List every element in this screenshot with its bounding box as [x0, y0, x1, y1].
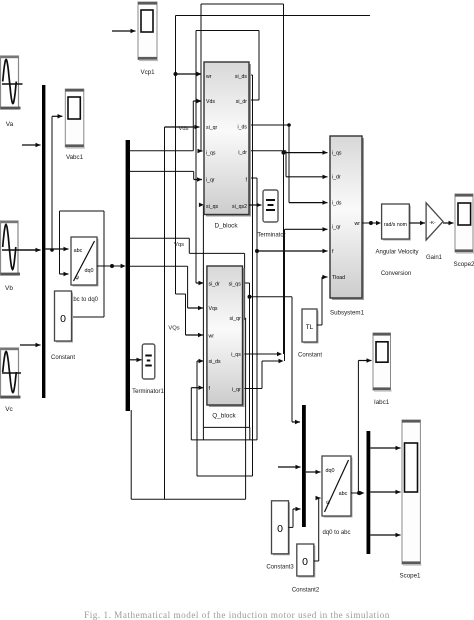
svg-text:ψ: ψ: [326, 500, 330, 506]
terminator block Terminator: [263, 190, 278, 222]
label Angular Velocity Conversion: [375, 250, 418, 278]
block dq0 to abc: [322, 456, 353, 518]
label Terminator: [257, 233, 285, 239]
label Subsystem1: [330, 310, 365, 317]
wire i_qs feedback loop top: [201, 3, 284, 5]
svg-text:Scope2: Scope2: [454, 261, 474, 268]
figure caption: [84, 610, 390, 620]
svg-text:si_qr: si_qr: [206, 125, 218, 131]
svg-text:Constant: Constant: [298, 353, 322, 359]
sine wave source Vc: [1, 348, 22, 398]
svg-text:dq0: dq0: [85, 268, 94, 274]
svg-text:si_ds: si_ds: [209, 359, 222, 365]
svg-text:Vb: Vb: [5, 285, 13, 292]
svg-text:Terminator1: Terminator1: [132, 389, 164, 395]
svg-text:si_dr: si_dr: [236, 99, 248, 105]
svg-text:Scope1: Scope1: [400, 573, 422, 580]
svg-text:si_qr: si_qr: [230, 316, 242, 322]
wire conversion to gain: [409, 221, 425, 225]
label Scope1: [400, 573, 422, 580]
wire dq0abc output: [351, 491, 365, 495]
svg-text:Vcp1: Vcp1: [140, 69, 155, 76]
svg-text:0: 0: [60, 313, 66, 325]
scope Vcp1: [138, 2, 158, 61]
wire Vqs from Demux1: [130, 266, 203, 310]
wire stubs below Q_block label: [203, 427, 249, 440]
label Vcp1: [140, 69, 155, 76]
svg-text:abc: abc: [74, 248, 83, 254]
label abc to dq0: [70, 297, 99, 303]
svg-text:Constant2: Constant2: [292, 588, 320, 594]
svg-text:Tload: Tload: [332, 275, 345, 281]
wire Constant2 to dq0abc: [314, 496, 321, 561]
wire si_dr feedback right: [249, 31, 259, 101]
gain block Gain1: [426, 203, 443, 240]
svg-text:si_qs: si_qs: [229, 281, 242, 287]
svg-text:i_qr: i_qr: [332, 225, 341, 231]
svg-text:abc: abc: [339, 491, 348, 497]
svg-text:Vqs: Vqs: [209, 306, 218, 312]
wire wr feedback vertical: [174, 16, 178, 295]
wire Vds from Demux1: [130, 99, 202, 151]
label Vds: [179, 126, 189, 132]
label Vqs wire: [174, 242, 184, 248]
svg-text:Fig. 1. Mathematical model of: Fig. 1. Mathematical model of the induct…: [84, 610, 390, 620]
svg-text:i_ds: i_ds: [332, 200, 342, 206]
subsystem Q_block: [207, 266, 245, 407]
wire si_dr feedback top: [196, 30, 259, 32]
svg-text:si_qs: si_qs: [206, 204, 219, 210]
label Vabc1: [66, 154, 84, 161]
svg-text:i_dr: i_dr: [332, 175, 341, 181]
wire gain to Scope2: [443, 221, 454, 225]
wire Q i_qs output: [243, 352, 283, 356]
svg-text:i_qs: i_qs: [231, 352, 241, 358]
label Iabc1: [374, 399, 390, 406]
wire bus to abc input: [46, 247, 69, 251]
label Constant: [51, 355, 75, 361]
wire Demux2 to Scope1 a: [370, 446, 400, 450]
svg-text:i_qs: i_qs: [206, 150, 216, 156]
wire Vc to bus Mux1: [20, 343, 41, 347]
svg-text:wr: wr: [355, 221, 361, 227]
wire Mux2 to dq0abc: [306, 470, 321, 474]
wire constant loop: [60, 211, 105, 317]
mux bar Demux1: [126, 140, 130, 411]
wire si_qs branch to dq0abc bus: [250, 297, 301, 425]
constant block Constant2: [297, 544, 316, 578]
svg-text:Subsystem1: Subsystem1: [330, 310, 365, 317]
wire wr to Q_block: [176, 294, 204, 337]
svg-text:dq0: dq0: [326, 468, 335, 474]
label Constant3: [266, 565, 294, 571]
svg-text:0: 0: [302, 556, 308, 568]
constant block Constant3: [272, 501, 291, 556]
svg-text:-K-: -K-: [429, 220, 436, 226]
svg-text:Angular Velocity: Angular Velocity: [375, 250, 418, 256]
wire TL to Tload: [317, 275, 328, 325]
wire Vb to bus Mux1: [2, 248, 41, 252]
label Constant2: [292, 588, 320, 594]
label Terminator1: [132, 389, 164, 395]
wire i_qs to Subsystem1: [284, 150, 328, 155]
svg-text:i_qs: i_qs: [332, 150, 342, 156]
sine wave source Vb: [1, 221, 21, 275]
svg-text:Q_block: Q_block: [212, 413, 236, 420]
wire si_ds crossfeed: [197, 75, 253, 476]
label Scope2: [454, 261, 474, 268]
label dq0 to abc: [322, 530, 350, 536]
wire Demux1 mid branch: [130, 238, 245, 320]
wire si_qs crossfeed: [199, 203, 252, 428]
wire i_qs feedback right: [282, 4, 286, 354]
terminator block Terminator1: [142, 344, 155, 379]
svg-text:Vabc1: Vabc1: [66, 154, 84, 161]
sine wave source Va: [1, 56, 23, 109]
wire si_dr feedback left: [196, 31, 204, 286]
constant block Constant: [55, 291, 74, 343]
svg-text:Gain1: Gain1: [426, 255, 443, 261]
mux bar Mux1: [42, 85, 45, 398]
svg-text:Va: Va: [6, 121, 14, 128]
svg-text:TL: TL: [306, 324, 314, 331]
wire wr feedback top: [176, 15, 371, 17]
svg-text:Vc: Vc: [5, 406, 13, 413]
scope Scope2: [455, 194, 474, 254]
svg-text:0: 0: [277, 523, 283, 535]
svg-text:si_ds: si_ds: [235, 74, 248, 80]
wire Demux1 to D i_qr: [130, 171, 202, 181]
label Constant TL: [298, 353, 322, 359]
svg-text:rad/s nom: rad/s nom: [384, 222, 407, 228]
wire Constant3 to Mux2: [288, 507, 300, 528]
wire D si_qs2 to Terminator: [249, 203, 262, 207]
wire i_ds to Subsystem1: [249, 123, 328, 205]
wire Demux2 to Scope1 b: [370, 490, 400, 494]
label Q_block: [212, 413, 236, 420]
mux bar Mux2: [302, 405, 306, 527]
label Va: [6, 121, 14, 128]
svg-text:Constant: Constant: [51, 355, 75, 361]
svg-text:Terminator: Terminator: [257, 233, 285, 239]
label VQs: [168, 326, 179, 332]
svg-text:Iabc1: Iabc1: [374, 399, 390, 406]
wire wr output: [362, 221, 381, 225]
wire i_qr to Subsystem1: [243, 227, 328, 388]
svg-text:i_ds: i_ds: [237, 124, 247, 130]
svg-text:dq0 to abc: dq0 to abc: [322, 530, 350, 536]
scope Scope1: [402, 420, 421, 566]
label Vc: [5, 406, 13, 413]
svg-text:Constant3: Constant3: [266, 565, 294, 571]
wire f to Subsystem1: [257, 249, 328, 253]
svg-text:Conversion: Conversion: [381, 271, 411, 277]
mux bar Demux2: [367, 431, 371, 554]
svg-text:si_dr: si_dr: [209, 281, 221, 287]
svg-text:i_qr: i_qr: [206, 177, 215, 183]
wire dq0 output to Demux1: [97, 264, 126, 268]
wire into Mux2 middle: [278, 465, 301, 469]
wire Va to bus Mux1: [22, 143, 41, 147]
wire Demux2 to Scope1 c: [370, 533, 400, 537]
svg-text:Vds: Vds: [206, 99, 215, 105]
label Gain1: [426, 255, 443, 261]
svg-text:abc to dq0: abc to dq0: [70, 297, 99, 303]
svg-text:VQs: VQs: [168, 326, 179, 332]
block abc to dq0: [71, 237, 99, 287]
svg-text:si_qs2: si_qs2: [232, 204, 247, 210]
svg-text:D_block: D_block: [214, 223, 238, 230]
svg-text:wr: wr: [206, 74, 212, 80]
label Vb: [5, 285, 13, 292]
constant block Constant (TL): [302, 309, 319, 344]
scope Vabc1: [65, 89, 85, 149]
wire to Iabc1: [358, 358, 371, 493]
svg-text:wr: wr: [209, 333, 215, 339]
wire to scope Vabc1: [50, 114, 62, 252]
wire into scope Vcp1: [112, 29, 136, 33]
subsystem Subsystem1: [330, 136, 364, 300]
wire Demux1 to Terminator1: [130, 358, 142, 363]
svg-text:Vqs: Vqs: [174, 242, 184, 248]
svg-text:i_dr: i_dr: [238, 150, 247, 156]
svg-text:ψ: ψ: [75, 275, 79, 281]
wire si_qr crossfeed: [131, 125, 245, 499]
wire constant to sin_cos input: [60, 211, 69, 276]
subsystem D_block: [204, 62, 251, 217]
wire i_dr to Subsystem1: [249, 151, 328, 179]
wire wr to D_block: [176, 72, 202, 76]
wire i_qs feedback left: [198, 4, 203, 153]
scope Iabc1: [373, 333, 392, 392]
label D_block: [214, 223, 238, 230]
block Angular Velocity Conversion: [382, 204, 411, 241]
svg-text:i_qr: i_qr: [232, 387, 241, 393]
wire f crossfeed: [191, 178, 259, 440]
